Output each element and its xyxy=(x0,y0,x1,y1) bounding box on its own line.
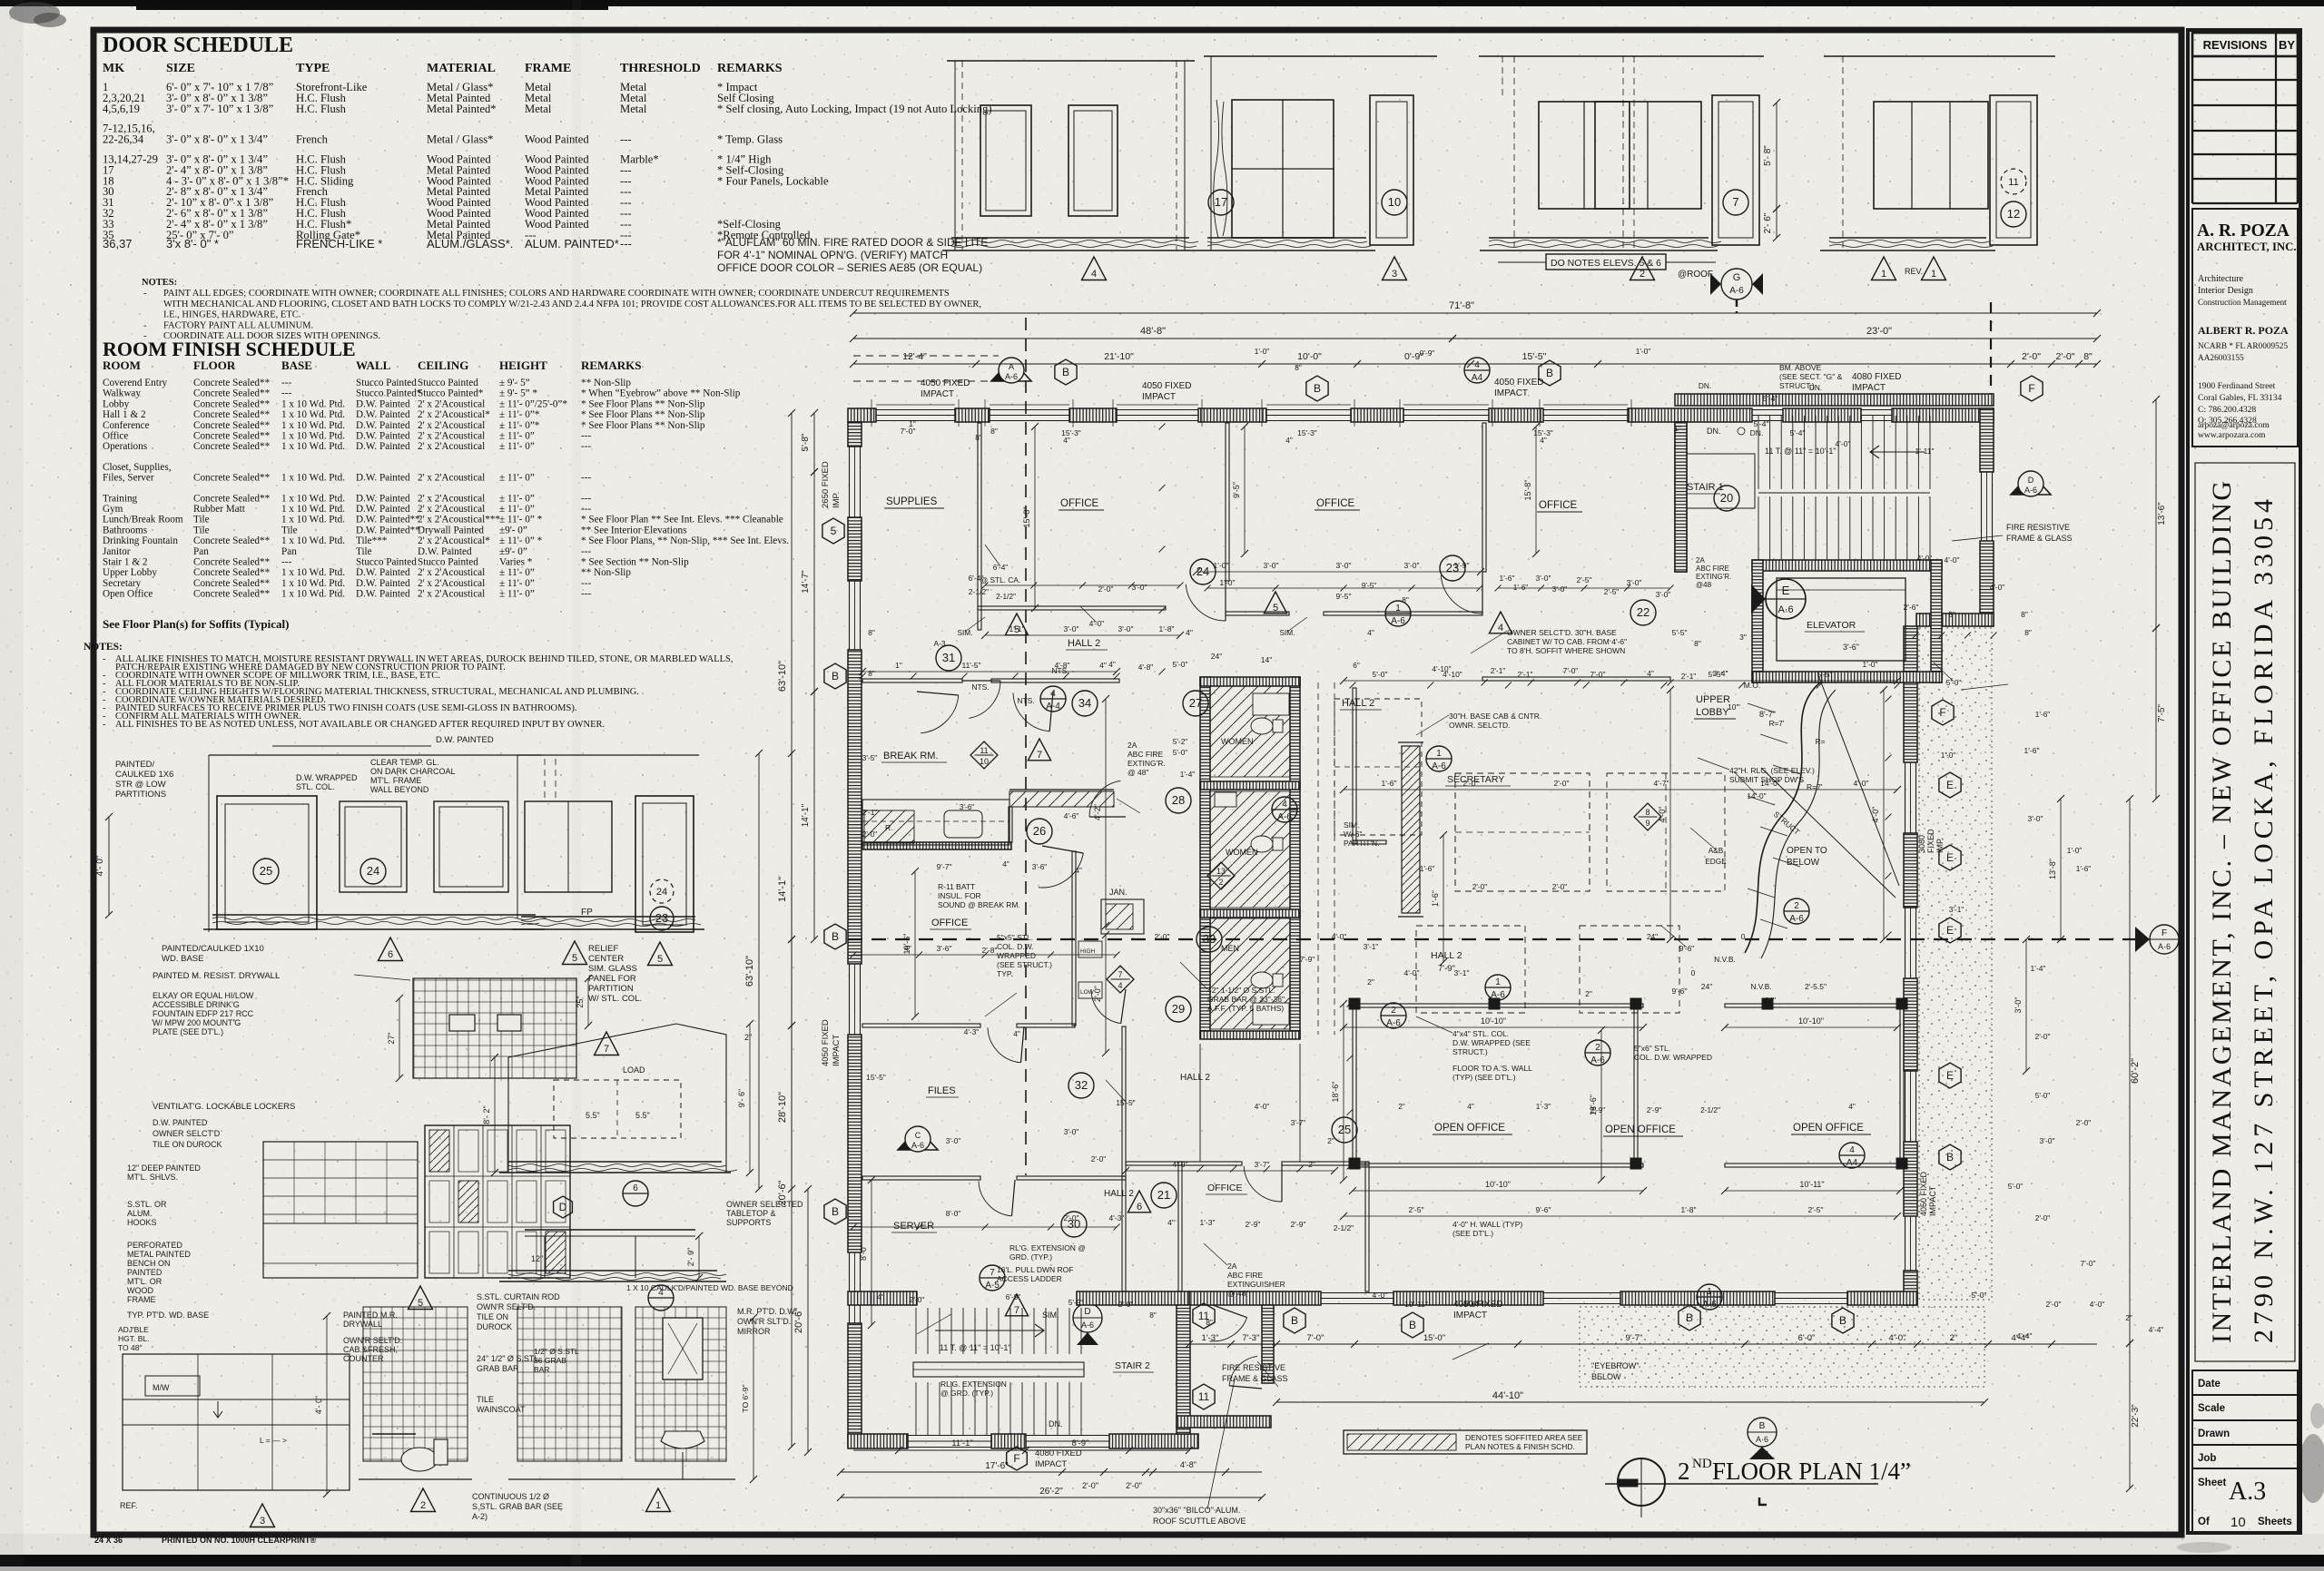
svg-text:8": 8" xyxy=(1295,363,1302,372)
svg-text:2'-9": 2'-9" xyxy=(1246,1220,1261,1229)
svg-text:15'-8": 15'-8" xyxy=(1022,507,1031,528)
svg-text:** Non-Slip: ** Non-Slip xyxy=(581,378,631,388)
svg-text:* See Floor Plan ** See Int. E: * See Floor Plan ** See Int. Elevs. *** … xyxy=(581,515,783,525)
svg-text:Coverend Entry: Coverend Entry xyxy=(103,378,168,388)
svg-text:4: 4 xyxy=(1849,1145,1855,1155)
svg-text:71'-8": 71'-8" xyxy=(1449,300,1474,311)
svg-text:I.E., HINGES, HARDWARE, ETC.: I.E., HINGES, HARDWARE, ETC. xyxy=(163,310,300,320)
svg-text:PAINTED: PAINTED xyxy=(127,1268,162,1277)
svg-text:26'-2": 26'-2" xyxy=(1039,1487,1063,1497)
svg-text:4": 4" xyxy=(1848,1102,1856,1111)
svg-text:9'-5": 9'-5" xyxy=(1232,482,1241,498)
triangle tag 5 xyxy=(1264,592,1286,614)
svg-text:* See Floor Plans ** Non-Slip: * See Floor Plans ** Non-Slip xyxy=(581,409,705,420)
svg-text:2'-0": 2'-0" xyxy=(862,830,878,839)
svg-text:W/ MPW 200 MOUNT'G: W/ MPW 200 MOUNT'G xyxy=(153,1018,241,1027)
svg-text:8": 8" xyxy=(868,669,875,678)
svg-text:± 11'- 0” *: ± 11'- 0” * xyxy=(499,515,543,525)
svg-text:B: B xyxy=(1314,382,1321,395)
svg-text:2'-1": 2'-1" xyxy=(1518,670,1533,679)
svg-text:OPEN TO: OPEN TO xyxy=(1787,846,1827,856)
detail 7: drinking fountain tile wall xyxy=(153,971,619,1082)
svg-text:4'-0": 4'-0" xyxy=(1658,807,1667,823)
svg-text:4'-0": 4'-0" xyxy=(1089,619,1105,628)
svg-text:OFFICE: OFFICE xyxy=(1539,500,1577,511)
svg-text:A-6: A-6 xyxy=(1789,914,1804,924)
svg-text:WOMEN: WOMEN xyxy=(1221,737,1254,746)
svg-text:L = — >: L = — > xyxy=(260,1436,287,1445)
svg-text:4: 4 xyxy=(1282,800,1287,810)
svg-text:A.3: A.3 xyxy=(2229,1478,2266,1506)
svg-text:24: 24 xyxy=(656,887,667,898)
right dimension chains xyxy=(2155,399,2157,628)
svg-text:DOOR SCHEDULE: DOOR SCHEDULE xyxy=(103,34,293,57)
hexagon tag F xyxy=(2021,376,2043,401)
svg-text:3'-4": 3'-4" xyxy=(1713,669,1728,678)
diamond tag 11/10 xyxy=(970,741,998,769)
svg-text:HGT. BL.: HGT. BL. xyxy=(118,1334,149,1343)
svg-text:4'-0": 4'-0" xyxy=(1173,1160,1188,1169)
svg-text:3'-6": 3'-6" xyxy=(960,802,975,811)
svg-text:N.V.B.: N.V.B. xyxy=(1750,982,1771,991)
svg-text:D.W. PAINTED: D.W. PAINTED xyxy=(153,1118,208,1127)
svg-text:A-2): A-2) xyxy=(472,1512,487,1521)
svg-text:34: 34 xyxy=(1078,696,1091,710)
svg-text:4'-7": 4'-7" xyxy=(1654,779,1669,788)
central core: north band xyxy=(1200,677,1300,686)
svg-text:PAINTED/: PAINTED/ xyxy=(115,760,154,770)
server walls xyxy=(1122,1176,1126,1291)
central core: mid bands xyxy=(1200,781,1300,790)
exterior wall: vestibule wall xyxy=(1262,1305,1274,1383)
svg-text:63'-10": 63'-10" xyxy=(744,956,755,987)
svg-text:TYPE: TYPE xyxy=(296,62,330,75)
svg-text:D: D xyxy=(1084,1307,1090,1317)
bottom-right scan smudge xyxy=(2299,1434,2324,1503)
SIM D A-6 flag right of details xyxy=(1042,1303,1102,1345)
svg-text:2' x 2'Acoustical: 2' x 2'Acoustical xyxy=(418,420,485,431)
svg-text:30"H. BASE CAB & CNTR.: 30"H. BASE CAB & CNTR. xyxy=(1449,712,1541,721)
svg-text:OPEN OFFICE: OPEN OFFICE xyxy=(1793,1123,1864,1134)
door 30 arc xyxy=(1281,1164,1283,1202)
svg-text:1'-4": 1'-4" xyxy=(2031,964,2046,973)
svg-text:1'-8": 1'-8" xyxy=(1159,624,1175,633)
svg-text:14'-0": 14'-0" xyxy=(1760,779,1780,788)
detail 4: tabletop section xyxy=(499,1196,803,1311)
svg-text:* See Floor Plans ** Non-Slip: * See Floor Plans ** Non-Slip xyxy=(581,420,705,431)
svg-text:OFFICE: OFFICE xyxy=(931,918,968,928)
svg-text:CEILING: CEILING xyxy=(418,358,468,372)
leader scribbles xyxy=(1471,631,1507,653)
svg-text:Tile: Tile xyxy=(356,546,372,557)
left details vertical dimension chains xyxy=(744,750,812,1456)
door tag 27 xyxy=(1183,691,1208,716)
door 31 arc xyxy=(962,680,1000,682)
svg-text:5.5": 5.5" xyxy=(586,1111,600,1120)
flag F/A-6 right xyxy=(2135,925,2179,954)
svg-text:DENOTES SOFFITED AREA SEE: DENOTES SOFFITED AREA SEE xyxy=(1465,1433,1583,1442)
svg-text:6'-0": 6'-0" xyxy=(1798,1333,1816,1343)
svg-text:Tile: Tile xyxy=(193,525,210,535)
svg-text:DN.: DN. xyxy=(1707,427,1721,436)
svg-text:15'-5": 15'-5" xyxy=(1116,1098,1135,1107)
svg-text:@ STL. CA.: @ STL. CA. xyxy=(980,575,1020,584)
svg-text:Scale: Scale xyxy=(2198,1403,2225,1414)
svg-text:(SEE DT'L.): (SEE DT'L.) xyxy=(1452,1229,1493,1238)
svg-text:11 T. @ 11" = 10'-1": 11 T. @ 11" = 10'-1" xyxy=(940,1343,1011,1352)
svg-text:Files, Server: Files, Server xyxy=(103,473,154,484)
svg-text:22: 22 xyxy=(1637,605,1649,619)
svg-text:20'-6": 20'-6" xyxy=(793,1308,804,1333)
svg-text:8": 8" xyxy=(2021,610,2028,619)
svg-text:15'-5": 15'-5" xyxy=(1522,351,1547,362)
flag tag 2/A-6 xyxy=(1784,898,1809,924)
svg-text:D.W. WRAPPED: D.W. WRAPPED xyxy=(296,773,358,782)
svg-text:2'-0": 2'-0" xyxy=(1064,1213,1079,1222)
project name vertical text xyxy=(2195,463,2295,1361)
svg-text:4: 4 xyxy=(1474,360,1480,370)
svg-text:8": 8" xyxy=(1149,1311,1157,1320)
svg-text:-: - xyxy=(103,720,106,730)
svg-text:8": 8" xyxy=(868,628,875,637)
svg-text:1: 1 xyxy=(1707,1287,1712,1297)
svg-text:5'-0": 5'-0" xyxy=(1173,748,1188,757)
svg-text:BENCH ON: BENCH ON xyxy=(127,1259,171,1268)
svg-text:4'-3": 4'-3" xyxy=(964,1027,980,1036)
svg-text:6'-4": 6'-4" xyxy=(993,563,1009,572)
svg-text:1'-3": 1'-3" xyxy=(1536,1102,1551,1111)
flag tag 2/A-6 xyxy=(1585,1040,1610,1065)
svg-text:4": 4" xyxy=(1167,1218,1175,1227)
svg-text:1'-6": 1'-6" xyxy=(1500,574,1515,583)
svg-text:5: 5 xyxy=(831,525,837,537)
svg-text:24 X 36: 24 X 36 xyxy=(94,1536,123,1545)
svg-text:2: 2 xyxy=(1794,901,1799,911)
svg-text:RL'G. EXTENSION @: RL'G. EXTENSION @ xyxy=(1009,1243,1086,1252)
svg-text:± 11'- 0”*: ± 11'- 0”* xyxy=(499,420,540,431)
svg-text:D: D xyxy=(2028,476,2034,485)
exterior wall: step at NE wing bottom xyxy=(1916,614,1994,626)
svg-text:ALL FINISHES TO BE AS NOTED UN: ALL FINISHES TO BE AS NOTED UNLESS, NOT … xyxy=(115,720,605,730)
svg-text:A-6: A-6 xyxy=(911,1141,924,1150)
svg-text:4080 FIXED: 4080 FIXED xyxy=(1852,372,1901,382)
svg-text:±9'- 0”: ±9'- 0” xyxy=(499,546,527,557)
svg-text:4,5,6,19: 4,5,6,19 xyxy=(103,103,140,115)
svg-text:Concrete Sealed**: Concrete Sealed** xyxy=(193,378,271,388)
svg-text:8": 8" xyxy=(975,433,982,442)
svg-text:11: 11 xyxy=(2008,177,2018,188)
svg-text:FRAME: FRAME xyxy=(525,62,571,75)
svg-text:Drinking Fountain: Drinking Fountain xyxy=(103,535,178,546)
sink xyxy=(661,1431,704,1448)
svg-text:3'-1": 3'-1" xyxy=(1454,968,1470,977)
svg-text:F: F xyxy=(2028,382,2034,395)
svg-text:B: B xyxy=(832,1205,839,1218)
svg-text:---: --- xyxy=(581,578,591,589)
svg-text:M.O.: M.O. xyxy=(1744,681,1760,690)
exterior wall: lower wing bottom xyxy=(848,1434,908,1448)
svg-text:5'-4": 5'-4" xyxy=(1763,394,1778,403)
svg-text:14'-7": 14'-7" xyxy=(801,570,811,594)
detail 1: lav/mirror elevation xyxy=(508,1307,797,1512)
hexagon tag B xyxy=(1939,1144,1961,1170)
svg-text:3'-6": 3'-6" xyxy=(1032,862,1048,871)
svg-text:H.C. Flush: H.C. Flush xyxy=(296,103,347,115)
svg-text:Concrete Sealed**: Concrete Sealed** xyxy=(193,589,271,600)
svg-text:8'-0": 8'-0" xyxy=(946,1209,961,1218)
svg-text:20: 20 xyxy=(1720,491,1733,505)
svg-text:FIRE RESISTIVE: FIRE RESISTIVE xyxy=(1222,1363,1285,1372)
svg-text:4'-0": 4'-0" xyxy=(2090,1300,2105,1309)
NE corner dark walls xyxy=(1675,422,1687,572)
svg-text:3'-0": 3'-0" xyxy=(1064,1127,1079,1136)
svg-text:8": 8" xyxy=(990,427,998,436)
svg-text:10'-10": 10'-10" xyxy=(1798,1016,1824,1026)
svg-text:TILE ON: TILE ON xyxy=(477,1312,508,1321)
hexagon tag E xyxy=(1939,845,1961,870)
svg-text:9'-7": 9'-7" xyxy=(937,862,952,871)
hexagon tag B xyxy=(1055,359,1077,385)
svg-text:Metal: Metal xyxy=(620,103,647,115)
svg-text:5'-0": 5'-0" xyxy=(1946,678,1962,687)
svg-text:8": 8" xyxy=(1694,639,1701,648)
svg-text:24: 24 xyxy=(367,864,379,878)
door tag 23 xyxy=(1440,555,1465,581)
svg-text:CENTER: CENTER xyxy=(588,954,624,964)
svg-text:2' x 2'Acoustical: 2' x 2'Acoustical xyxy=(418,473,485,484)
svg-text:4'-0": 4'-0" xyxy=(1854,779,1869,788)
svg-text:2'-0": 2'-0" xyxy=(1082,1481,1098,1490)
svg-text:1 x 10 Wd. Ptd.: 1 x 10 Wd. Ptd. xyxy=(281,589,345,600)
svg-text:D.W. Painted: D.W. Painted xyxy=(356,589,410,600)
vertical tick columns xyxy=(1159,424,1166,430)
svg-text:± 9'- 5” *: ± 9'- 5” * xyxy=(499,388,537,399)
svg-text:21'-10": 21'-10" xyxy=(1104,351,1134,362)
exterior wall: right upper (NE wing) xyxy=(1980,408,1994,472)
flag tag 1/A-6 xyxy=(1485,975,1511,1000)
elevation 1 (windows + door far right) xyxy=(1820,56,2055,280)
svg-text:± 11'- 0”: ± 11'- 0” xyxy=(499,493,535,504)
svg-text:Lunch/Break Room: Lunch/Break Room xyxy=(103,515,183,525)
architect info block xyxy=(2192,209,2298,447)
svg-text:2' x 2'Acoustical*: 2' x 2'Acoustical* xyxy=(418,535,490,546)
hexagon tag E xyxy=(1939,918,1961,943)
svg-text:WRAPPED: WRAPPED xyxy=(997,951,1036,960)
svg-text:4'-6": 4'-6" xyxy=(1463,1300,1479,1309)
svg-text:DN.: DN. xyxy=(1809,383,1822,392)
svg-text:WALL BEYOND: WALL BEYOND xyxy=(370,785,429,794)
svg-text:S.STL. GRAB BAR (SEE: S.STL. GRAB BAR (SEE xyxy=(472,1502,563,1511)
svg-text:3'-0": 3'-0" xyxy=(1656,590,1671,599)
svg-text:W/ STL. COL.: W/ STL. COL. xyxy=(588,994,642,1004)
svg-text:NOTES:: NOTES: xyxy=(84,642,123,653)
svg-text:NTS.: NTS. xyxy=(1052,666,1069,675)
svg-text:3'-0": 3'-0" xyxy=(1264,561,1279,570)
2nd floor plan title xyxy=(1605,1452,1911,1517)
hall2 below core dashes xyxy=(1199,1044,1201,1162)
interior partition: south wall office right xyxy=(1482,677,1670,681)
svg-text:± 11'- 0”: ± 11'- 0” xyxy=(499,473,535,484)
svg-text:B: B xyxy=(832,670,839,682)
svg-text:WD. BASE: WD. BASE xyxy=(162,954,203,964)
svg-text:TO 8'H. SOFFIT WHERE SHOWN: TO 8'H. SOFFIT WHERE SHOWN xyxy=(1507,646,1625,655)
svg-text:C: C xyxy=(915,1131,921,1140)
svg-text:15'-5": 15'-5" xyxy=(866,1073,886,1082)
svg-text:42" 1-1/2" Ø S.STL.: 42" 1-1/2" Ø S.STL. xyxy=(1207,986,1275,995)
svg-text:REF.: REF. xyxy=(120,1501,138,1510)
svg-text:CAULKED 1X6: CAULKED 1X6 xyxy=(115,770,173,780)
svg-text:6: 6 xyxy=(388,949,393,960)
svg-text:2'- 6": 2'- 6" xyxy=(1763,212,1773,233)
svg-text:M/W: M/W xyxy=(153,1383,170,1392)
hexagon tag B xyxy=(1306,376,1328,401)
svg-text:2: 2 xyxy=(1640,269,1645,280)
svg-text:A-6: A-6 xyxy=(1729,286,1744,296)
svg-text:13: 13 xyxy=(1216,867,1226,876)
svg-text:B: B xyxy=(1946,1151,1954,1164)
svg-text:* Temp. Glass: * Temp. Glass xyxy=(717,133,783,146)
svg-text:A-6: A-6 xyxy=(1081,1321,1094,1330)
svg-text:1'-0": 1'-0" xyxy=(1214,561,1229,570)
svg-text:7'-9": 7'-9" xyxy=(1300,955,1315,964)
svg-text:** Non-Slip: ** Non-Slip xyxy=(581,567,631,578)
svg-text:MT'L. FRAME: MT'L. FRAME xyxy=(370,776,421,785)
svg-text:4": 4" xyxy=(904,944,911,953)
interior partition: office1/office2 xyxy=(1226,423,1229,581)
flag tag 4/A-6 xyxy=(1272,797,1297,822)
svg-text:SUPPORTS: SUPPORTS xyxy=(726,1218,771,1227)
svg-text:E: E xyxy=(1946,851,1954,864)
triangle tag 7 xyxy=(1028,739,1050,761)
svg-text:4": 4" xyxy=(1285,436,1293,445)
svg-text:(SEE STRUCT.): (SEE STRUCT.) xyxy=(997,960,1052,969)
hexagon tag F xyxy=(1932,700,1954,725)
svg-text:2": 2" xyxy=(2125,1313,2132,1322)
svg-text:1: 1 xyxy=(655,1500,661,1511)
extra leader lines pass 2 xyxy=(965,617,985,632)
svg-text:± 11'- 0”: ± 11'- 0” xyxy=(499,567,535,578)
svg-text:UPPER: UPPER xyxy=(1696,694,1730,705)
svg-text:4"x4" STL. COL.: 4"x4" STL. COL. xyxy=(1452,1029,1509,1038)
svg-text:* Four Panels, Lockable: * Four Panels, Lockable xyxy=(717,174,829,187)
svg-text:2": 2" xyxy=(1367,977,1374,987)
svg-text:Tile***: Tile*** xyxy=(356,535,388,546)
svg-text:6'-9": 6'-9" xyxy=(1006,1292,1021,1301)
svg-text:3'-0": 3'-0" xyxy=(1064,624,1079,633)
toilet xyxy=(401,1448,438,1471)
svg-text:INSUL. FOR: INSUL. FOR xyxy=(938,891,981,900)
svg-text:3'-0": 3'-0" xyxy=(2028,814,2043,823)
svg-text:ACCESS LADDER: ACCESS LADDER xyxy=(997,1274,1062,1283)
svg-text:Concrete Sealed**: Concrete Sealed** xyxy=(193,535,271,546)
svg-text:REV.: REV. xyxy=(1905,267,1923,276)
svg-text:1'-1": 1'-1" xyxy=(1009,624,1025,633)
svg-text:2A: 2A xyxy=(1227,1262,1237,1271)
svg-text:3: 3 xyxy=(1392,269,1397,280)
svg-text:---: --- xyxy=(281,378,291,388)
svg-text:5"x5" STL.: 5"x5" STL. xyxy=(997,933,1033,942)
svg-text:2' x 2'Acoustical: 2' x 2'Acoustical xyxy=(418,589,485,600)
svg-text:ABC FIRE: ABC FIRE xyxy=(1696,565,1729,573)
svg-text:26: 26 xyxy=(1033,824,1046,838)
jan closet xyxy=(1101,899,1144,934)
svg-text:CABINET W/ TO CAB. FROM 4'-6": CABINET W/ TO CAB. FROM 4'-6" xyxy=(1507,637,1627,646)
svg-text:1 x 10 Wd. Ptd.: 1 x 10 Wd. Ptd. xyxy=(281,515,345,525)
svg-text:29: 29 xyxy=(1172,1002,1185,1016)
svg-text:1": 1" xyxy=(909,419,916,428)
svg-text:FACTORY PAINT ALL ALUMINUM.: FACTORY PAINT ALL ALUMINUM. xyxy=(163,320,313,330)
svg-text:E: E xyxy=(1946,1069,1954,1082)
svg-text:IMPACT: IMPACT xyxy=(1852,383,1886,393)
svg-text:N.V.B.: N.V.B. xyxy=(1714,955,1736,964)
svg-text:5'-4": 5'-4" xyxy=(1790,428,1806,437)
svg-text:WALL: WALL xyxy=(356,358,391,372)
hexagon tag B xyxy=(1402,1312,1423,1338)
svg-text:D.W. Painted**: D.W. Painted** xyxy=(356,525,420,535)
svg-text:12" DEEP PAINTED: 12" DEEP PAINTED xyxy=(127,1164,201,1173)
svg-text:2' x 2'Acoustical: 2' x 2'Acoustical xyxy=(418,431,485,442)
svg-text:* Self closing, Auto Locking,: * Self closing, Auto Locking, Impact (19… xyxy=(717,103,992,115)
svg-text:8": 8" xyxy=(1206,1318,1213,1327)
svg-text:8'- 2": 8'- 2" xyxy=(482,1105,491,1124)
svg-text:2'-0": 2'-0" xyxy=(1118,1300,1134,1309)
detail 2: toilet elevation xyxy=(359,1292,563,1521)
svg-text:1: 1 xyxy=(1931,269,1936,280)
svg-text:3'-6": 3'-6" xyxy=(1843,643,1859,652)
svg-text:±9'- 0”: ±9'- 0” xyxy=(499,525,527,535)
svg-text:1: 1 xyxy=(1881,269,1886,280)
svg-text:2'-0": 2'-0" xyxy=(1554,779,1570,788)
svg-text:G: G xyxy=(1733,272,1741,283)
svg-text:9'-6": 9'-6" xyxy=(1672,987,1688,996)
long dashed centerlines xyxy=(848,938,2135,940)
svg-text:EXTINGUISHER: EXTINGUISHER xyxy=(1227,1280,1285,1289)
svg-text:4'-8": 4'-8" xyxy=(1180,1460,1196,1469)
svg-text:FOR 4'-1" NOMINAL OPN'G. (VERI: FOR 4'-1" NOMINAL OPN'G. (VERIFY) MATCH xyxy=(717,249,948,261)
interior dimension rows xyxy=(1196,571,1481,573)
svg-text:2'-0": 2'-0" xyxy=(1155,932,1170,941)
svg-text:8'-0": 8'-0" xyxy=(859,1244,868,1261)
svg-text:FRENCH-LIKE *: FRENCH-LIKE * xyxy=(296,237,382,250)
svg-text:27": 27" xyxy=(387,1032,396,1044)
flag tag 4/A4 xyxy=(1464,358,1490,383)
svg-text:4'-4": 4'-4" xyxy=(2017,1331,2033,1340)
svg-text:2: 2 xyxy=(1218,878,1223,887)
svg-text:16'L. PULL DWN ROF: 16'L. PULL DWN ROF xyxy=(997,1265,1073,1274)
svg-text:1 x 10 Wd. Ptd.: 1 x 10 Wd. Ptd. xyxy=(281,504,345,515)
svg-text:4'-0": 4'-0" xyxy=(1255,1102,1270,1111)
svg-text:A. R. POZA: A. R. POZA xyxy=(2197,221,2290,241)
svg-text:2'-1": 2'-1" xyxy=(862,808,878,817)
door tag 28 xyxy=(1166,788,1191,813)
svg-text:1'-0": 1'-0" xyxy=(1220,578,1236,587)
svg-text:4'-0" H. WALL (TYP): 4'-0" H. WALL (TYP) xyxy=(1452,1220,1522,1229)
svg-text:3'-0": 3'-0" xyxy=(1336,561,1352,570)
svg-text:15'-8": 15'-8" xyxy=(1523,480,1532,501)
svg-text:A4: A4 xyxy=(1472,373,1483,383)
svg-text:1: 1 xyxy=(1436,749,1442,759)
svg-text:D.W. Painted: D.W. Painted xyxy=(356,441,410,452)
svg-text:PAINTED M. RESIST. DRYWALL: PAINTED M. RESIST. DRYWALL xyxy=(153,971,280,981)
triangle tag 4 xyxy=(1489,612,1512,633)
svg-text:D.W. Painted: D.W. Painted xyxy=(356,473,410,484)
svg-text:2'-8": 2'-8" xyxy=(982,946,998,955)
svg-text:Stucco Painted*: Stucco Painted* xyxy=(356,388,422,399)
svg-text:Metal / Glass*: Metal / Glass* xyxy=(427,133,493,146)
window hw tick clusters top xyxy=(871,399,872,427)
svg-text:6": 6" xyxy=(1353,661,1360,670)
svg-text:Rubber Matt: Rubber Matt xyxy=(193,504,246,515)
